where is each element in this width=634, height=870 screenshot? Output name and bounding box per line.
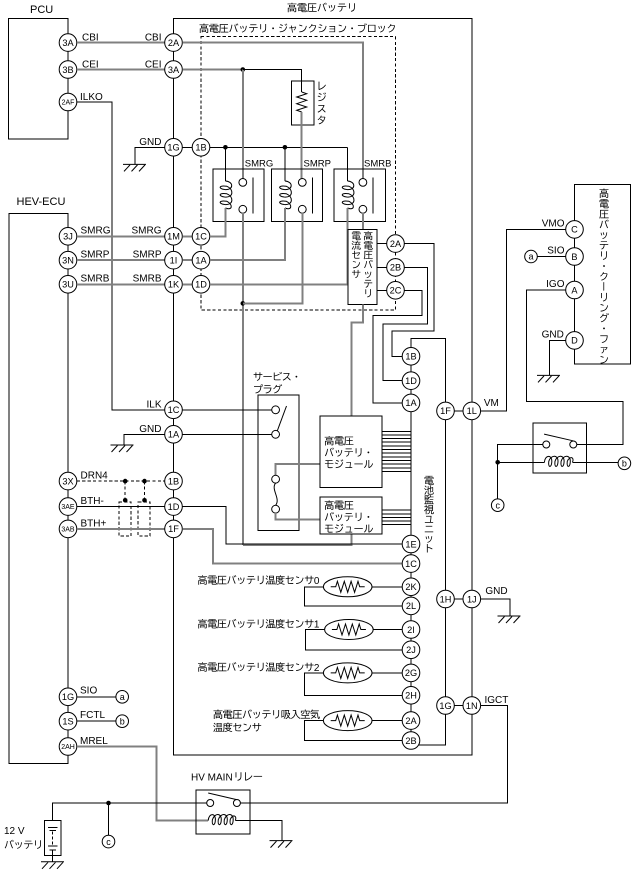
wire SMRB contact to sensor (362, 213, 364, 229)
terminal 1N battery IGCT (463, 697, 481, 715)
terminal 3N (59, 251, 77, 269)
relay SMRP box (272, 169, 323, 222)
terminal 1A junction SMRP (192, 251, 210, 269)
svg-text:2A: 2A (405, 716, 417, 726)
connector b fan (618, 457, 631, 470)
service plug fuse bottom wire (276, 513, 320, 519)
wire 1C to SMRG coil (210, 208, 226, 236)
svg-text:FCTL: FCTL (80, 710, 105, 721)
svg-text:VMO: VMO (542, 219, 565, 230)
resistor zigzag (297, 92, 307, 112)
fan relay contacts (543, 441, 550, 448)
battery monitor unit label (424, 476, 434, 553)
ground PCU GND (123, 164, 146, 171)
junction block label (199, 23, 395, 33)
svg-text:SMRG: SMRG (245, 159, 273, 170)
wire 12V to relay contact (53, 803, 207, 820)
terminal 1S FCTL (59, 712, 77, 730)
terminal 3A PCU (59, 34, 77, 52)
ground 1A (111, 445, 134, 452)
wire 3J-1M (77, 235, 165, 237)
svg-text:PCU: PCU (30, 4, 53, 16)
svg-text:1M: 1M (167, 232, 180, 242)
svg-text:2L: 2L (406, 601, 416, 611)
svg-text:b: b (622, 459, 627, 469)
svg-text:SMRB: SMRB (133, 274, 162, 285)
wire sensor to module1 top (352, 305, 363, 417)
wire GND to ground (135, 147, 165, 164)
svg-text:3X: 3X (62, 476, 73, 486)
terminal 3A battery CEI (165, 61, 183, 79)
terminal 3J (59, 228, 77, 246)
terminal 1G battery GND (165, 139, 183, 157)
svg-text:2A: 2A (168, 38, 180, 48)
HV MAIN relay box (196, 790, 250, 834)
svg-text:SIO: SIO (547, 246, 564, 257)
wire 1A to service plug (182, 433, 271, 435)
thermistor ellipse (325, 620, 374, 640)
battery monitor unit box (411, 339, 446, 745)
svg-text:2G: 2G (405, 668, 417, 678)
svg-text:GND: GND (485, 586, 507, 597)
svg-text:1N: 1N (466, 701, 478, 711)
svg-text:SMRB: SMRB (364, 159, 391, 170)
terminal 1A GND (165, 426, 183, 444)
thermistor ellipse (323, 577, 372, 597)
terminal 3U (59, 276, 77, 294)
terminal 3AE (59, 498, 77, 516)
terminal 1E monitor (402, 535, 420, 553)
svg-text:3B: 3B (62, 65, 73, 75)
SMRG contact circles (239, 179, 247, 187)
wire 3N-1I (77, 259, 165, 261)
svg-text:1G: 1G (439, 701, 451, 711)
wire 1M-1C gap (182, 235, 192, 237)
svg-text:2: 2 (314, 663, 320, 674)
wire 1G-1B gap (182, 146, 192, 148)
terminal 1J battery GND (463, 590, 481, 608)
svg-text:GND: GND (542, 330, 564, 341)
SMRB coil (342, 181, 354, 209)
thermistor zigzag (332, 624, 366, 635)
svg-text:1C: 1C (405, 559, 417, 569)
wire IGO (526, 290, 623, 445)
svg-text:ILKO: ILKO (80, 92, 103, 103)
battery 12V cells (48, 826, 58, 828)
svg-text:MREL: MREL (80, 736, 108, 747)
thermistor zigzag (331, 667, 365, 678)
service plug fuse circles (272, 475, 280, 483)
thermistor zigzag (331, 581, 365, 592)
wire ILKO (77, 102, 165, 410)
wire IGCT (240, 706, 507, 804)
svg-text:1: 1 (314, 620, 320, 631)
wire SIO to a (77, 696, 116, 698)
svg-text:2C: 2C (390, 286, 402, 296)
wire to module2 bottom (243, 534, 352, 545)
thermistor ellipse (323, 663, 372, 683)
svg-text:3N: 3N (62, 256, 74, 266)
svg-text:1D: 1D (168, 502, 180, 512)
svg-text:1D: 1D (195, 280, 207, 290)
junction dot power (241, 301, 246, 306)
svg-text:2I: 2I (407, 625, 415, 635)
wire 1H-1J gap (454, 598, 463, 600)
temp sensor label (198, 619, 320, 631)
terminal 1C ILK (165, 401, 183, 419)
terminal 2L monitor (402, 597, 420, 615)
wire 1K-1D gap (182, 283, 192, 285)
terminal 2H monitor (402, 687, 420, 705)
terminal 3AB (59, 520, 77, 538)
thermistor wires (372, 672, 402, 674)
svg-text:DRN4: DRN4 (81, 471, 109, 482)
svg-text:1A: 1A (168, 430, 180, 440)
svg-text:SMRP: SMRP (133, 249, 162, 260)
terminal 2B monitor (402, 732, 420, 750)
wire CEI (77, 69, 165, 71)
PCU box (9, 19, 68, 139)
cooling fan label (599, 188, 609, 363)
thermistor zigzag (331, 715, 365, 726)
svg-text:SMRB: SMRB (81, 274, 110, 285)
svg-text:3AB: 3AB (61, 526, 75, 533)
junction dot 12V c (106, 801, 111, 806)
svg-text:BTH+: BTH+ (81, 518, 107, 529)
svg-text:1C: 1C (168, 405, 180, 415)
wire ILK to service plug (182, 409, 271, 411)
svg-text:SMRG: SMRG (132, 226, 162, 237)
svg-text:3U: 3U (62, 280, 74, 290)
svg-text:B: B (571, 252, 577, 262)
terminal 2C sensor (387, 282, 405, 300)
wire BTH- (77, 506, 165, 508)
battery module 1 box (320, 416, 382, 487)
wire a to B (537, 256, 565, 258)
current sensor box (348, 229, 377, 304)
svg-text:HV MAIN: HV MAIN (191, 773, 233, 784)
svg-text:1F: 1F (168, 524, 179, 534)
wire 1G-1N gap (454, 705, 463, 707)
svg-text:1E: 1E (405, 539, 416, 549)
svg-text:2J: 2J (406, 645, 416, 655)
junction block dashed box (201, 37, 396, 311)
svg-text:1B: 1B (168, 476, 179, 486)
terminal 1B DRN4 (165, 472, 183, 490)
SMRP coil (280, 181, 292, 209)
wire SMRP contact down-left (243, 213, 302, 303)
junction dot coil SMRG (223, 145, 228, 150)
svg-text:GND: GND (139, 424, 161, 435)
wire 2C to 1A (373, 290, 422, 403)
cooling fan box (575, 185, 631, 365)
thermistor ellipse (323, 711, 372, 731)
ground 1J (498, 616, 521, 623)
wire BTH+ (77, 528, 165, 530)
battery 12V box (45, 820, 61, 855)
svg-text:1J: 1J (467, 594, 477, 604)
service plug interlock blade (277, 406, 286, 431)
relay SMRB box (334, 169, 385, 222)
resistor label rejisuta (318, 82, 326, 125)
svg-text:1G: 1G (167, 143, 179, 153)
temp sensor label (198, 575, 320, 587)
wire 3U-1K (77, 283, 165, 285)
svg-text:c: c (106, 837, 111, 847)
wire SMRG contact down (242, 213, 244, 545)
terminal 1M (165, 228, 183, 246)
svg-text:1S: 1S (62, 717, 73, 727)
HEV-ECU box (9, 213, 68, 763)
battery module 2 ladder (382, 510, 411, 524)
svg-text:1A: 1A (195, 256, 207, 266)
HV MAIN relay blade (208, 793, 236, 800)
svg-text:SIO: SIO (80, 686, 97, 697)
fan relay coil (544, 456, 573, 466)
wire sensor-2B (377, 266, 387, 268)
svg-text:1G: 1G (62, 692, 74, 702)
terminal 1D monitor (402, 372, 420, 390)
service plug fuse curve (274, 483, 277, 505)
ground HV relay (270, 841, 293, 848)
shield dots lower (123, 498, 128, 503)
svg-text:1L: 1L (467, 406, 477, 416)
SMRB contact circles (359, 179, 367, 187)
wire 1A to ground (124, 434, 165, 445)
svg-text:a: a (528, 252, 533, 262)
wire DRN4 dashed (77, 480, 165, 482)
svg-text:SMRG: SMRG (81, 226, 111, 237)
terminal 1B junction GND (192, 139, 210, 157)
svg-text:2B: 2B (405, 736, 416, 746)
svg-text:1A: 1A (405, 398, 417, 408)
wire 2B to 1D (383, 267, 428, 380)
wire battery to ground (52, 850, 54, 862)
wire 2A to 1B (392, 244, 434, 357)
terminal 1C monitor (402, 555, 420, 573)
shield dashed drops (124, 481, 126, 500)
svg-text:1C: 1C (195, 232, 207, 242)
current sensor label (364, 231, 373, 297)
thermistor wires (372, 720, 402, 722)
svg-text:3A: 3A (62, 38, 74, 48)
svg-text:2AF: 2AF (62, 100, 75, 107)
battery 12V label (5, 840, 41, 849)
terminal 1G monitor (437, 697, 455, 715)
high-voltage battery box (174, 19, 472, 755)
temp sensor label (198, 662, 320, 674)
terminal 2A sensor (387, 235, 405, 253)
wire coil to ground (235, 821, 281, 841)
SMRG coil (220, 181, 232, 209)
terminal 1G SIO (59, 688, 77, 706)
connector c fan (491, 499, 504, 512)
wire GND fan (550, 340, 566, 375)
svg-text:1D: 1D (405, 376, 417, 386)
fan relay blade (544, 434, 573, 441)
connector a left (116, 691, 129, 704)
wire 1F-1L gap (454, 410, 463, 412)
terminal 3B PCU (59, 61, 77, 79)
svg-text:1F: 1F (440, 406, 451, 416)
wire coil to b fan (573, 461, 619, 463)
wire CBI (77, 42, 165, 44)
svg-text:a: a (120, 692, 125, 702)
terminal 1I (165, 251, 183, 269)
terminal D fan (566, 332, 584, 350)
wire 1F to 1C monitor (182, 529, 402, 564)
wire FCTL to b (77, 720, 116, 722)
wire resistor to SMRP contact (301, 112, 303, 178)
terminal 2G monitor (402, 664, 420, 682)
wire CBI to SMRB contact (182, 43, 363, 179)
wire CEI gray to junction dot (182, 69, 243, 71)
HV MAIN relay contacts (207, 800, 214, 807)
terminal 1F BTH+ (165, 520, 183, 538)
shield dashed box 2 (138, 502, 150, 536)
svg-text:HEV-ECU: HEV-ECU (17, 196, 66, 208)
svg-text:3A: 3A (168, 65, 180, 75)
terminal 1C junction SMRG (192, 228, 210, 246)
wire sensor-2C (377, 289, 387, 291)
wire 1A to SMRP coil (210, 208, 285, 260)
ground 12V battery (41, 862, 64, 869)
wire 1D to 1E monitor (182, 507, 402, 544)
wire coil drop SMRB (347, 147, 349, 181)
terminal 2K monitor (402, 578, 420, 596)
high-voltage battery label (287, 3, 354, 13)
terminal 2A battery CBI (165, 34, 183, 52)
terminal 3X (59, 472, 77, 490)
svg-text:3J: 3J (63, 232, 73, 242)
resistor box (291, 81, 313, 125)
shield dashed box 1 (119, 502, 131, 536)
junction dot fan c (495, 460, 500, 465)
HV MAIN relay label (191, 772, 262, 783)
terminal 2J monitor (402, 641, 420, 659)
svg-text:1H: 1H (440, 594, 452, 604)
svg-text:VM: VM (484, 398, 499, 409)
junction dot coil SMRP (283, 145, 288, 150)
svg-text:12 V: 12 V (4, 826, 25, 837)
svg-text:C: C (571, 225, 578, 235)
ground fan (537, 375, 560, 382)
svg-text:1B: 1B (405, 352, 416, 362)
svg-text:1B: 1B (195, 143, 206, 153)
service plug fuse top wire (276, 464, 320, 476)
wire 1I-1A gap (182, 259, 192, 261)
relay SMRG box (213, 169, 264, 222)
wire CEI to resistor black (243, 70, 302, 93)
terminal 2B sensor (387, 259, 405, 277)
service plug label (254, 372, 298, 381)
SMRP contact circles (298, 179, 306, 187)
wire CEI branch to SMRG contact (242, 70, 244, 179)
wire sensor-2A (377, 243, 387, 245)
svg-text:2B: 2B (390, 263, 401, 273)
battery module 1 ladder (382, 431, 411, 471)
wire to connector c fan (497, 462, 499, 499)
svg-text:SMRP: SMRP (81, 249, 110, 260)
svg-text:2AH: 2AH (61, 744, 75, 751)
battery module 2 label (325, 500, 354, 510)
wire 1D to SMRB coil (210, 208, 348, 284)
battery module 1 label (325, 436, 354, 446)
terminal 1F monitor (437, 402, 455, 420)
svg-text:2K: 2K (405, 582, 417, 592)
svg-text:0: 0 (314, 576, 320, 587)
terminal 1K (165, 276, 183, 294)
SMRB contact bar (372, 178, 374, 214)
svg-text:GND: GND (139, 137, 161, 148)
wire to connector c left (108, 803, 110, 835)
svg-text:2A: 2A (390, 239, 402, 249)
thermistor wires (373, 629, 402, 631)
wire MREL (77, 747, 208, 821)
svg-text:SMRP: SMRP (304, 159, 331, 170)
junction dot CEI-SMRG (241, 67, 246, 72)
terminal 1L battery VM (463, 402, 481, 420)
svg-text:1K: 1K (168, 280, 180, 290)
terminal 1D junction SMRB (192, 276, 210, 294)
wire VM (481, 229, 566, 411)
terminal 1B monitor (402, 348, 420, 366)
HV MAIN relay coil (208, 815, 236, 825)
svg-text:IGO: IGO (546, 279, 565, 290)
svg-text:b: b (120, 716, 125, 726)
terminal 1A monitor (402, 394, 420, 412)
connector b left (116, 715, 129, 728)
fan relay box (533, 423, 587, 473)
svg-text:IGCT: IGCT (485, 695, 509, 706)
terminal B fan (566, 248, 584, 266)
fan relay left wires (498, 445, 543, 463)
svg-text:BTH-: BTH- (81, 496, 104, 507)
connector a fan (525, 250, 538, 263)
terminal 1D BTH- (165, 498, 183, 516)
shield dots DRN4 (123, 479, 128, 484)
svg-text:1I: 1I (170, 256, 178, 266)
wire coil drop SMRG (224, 147, 226, 181)
connector c left (102, 835, 115, 848)
battery module 2 box (320, 497, 382, 534)
terminal 2I monitor (402, 621, 420, 639)
svg-text:3AE: 3AE (61, 504, 75, 511)
svg-text:A: A (571, 285, 578, 295)
wire GND bus to relay coils (210, 146, 348, 148)
thermistor wires (372, 586, 402, 588)
terminal C fan (566, 221, 584, 239)
svg-text:D: D (571, 336, 578, 346)
terminal 2AH MREL (59, 738, 77, 756)
temp sensor label (213, 709, 319, 719)
terminal 2A monitor (402, 712, 420, 730)
terminal 1H monitor (437, 590, 455, 608)
svg-text:ILK: ILK (146, 400, 161, 411)
wire GND 1J to ground (481, 599, 510, 616)
service plug box (258, 395, 299, 530)
service plug interlock contacts (272, 406, 280, 414)
svg-text:2H: 2H (405, 691, 417, 701)
terminal 2AF PCU (59, 93, 77, 111)
wire coil drop SMRP (284, 147, 286, 181)
SMRG contact bar (252, 178, 254, 214)
SMRP contact bar (312, 178, 314, 214)
svg-text:c: c (495, 500, 500, 510)
terminal A fan (566, 281, 584, 299)
